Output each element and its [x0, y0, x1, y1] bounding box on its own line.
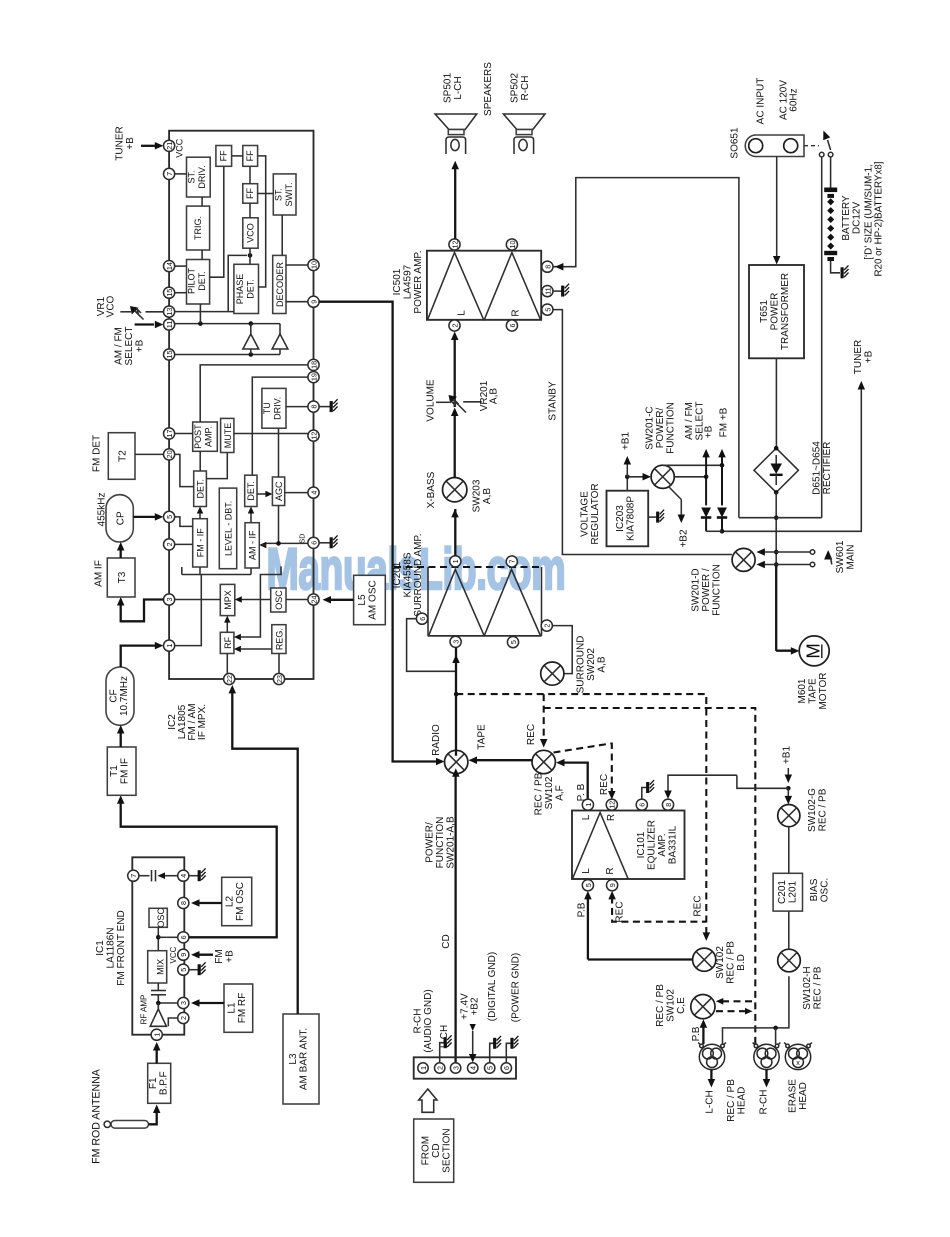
- label AM / FM SELECT +B: [684, 402, 715, 441]
- block FM-IF: [193, 519, 208, 567]
- wire CD line heavy: [452, 768, 460, 1063]
- wire agc-amif: [278, 506, 280, 544]
- svg-text:TAPE: TAPE: [477, 724, 488, 750]
- svg-text:R: R: [605, 867, 616, 874]
- block ST.SWIT.: [273, 174, 296, 215]
- svg-text:(POWER GND): (POWER GND): [510, 953, 521, 1022]
- wire pin5 PB-sw102bd heavy: [584, 891, 692, 960]
- svg-text:STANBY: STANBY: [548, 381, 559, 421]
- svg-text:A,B: A,B: [482, 488, 493, 504]
- svg-text:AGC: AGC: [274, 481, 284, 501]
- label M601 TAPE MOTOR: [797, 672, 829, 709]
- svg-text:VCC: VCC: [169, 946, 178, 963]
- speaker SP502 R-CH: [503, 73, 545, 154]
- wire pin12-speaker heavy: [451, 161, 459, 239]
- pin 17 IC2: [164, 428, 175, 439]
- wire osc2-pin24: [286, 599, 308, 601]
- wire F1-pin1 arrow: [153, 1042, 161, 1063]
- wire IC1pin6-T1: [117, 795, 277, 937]
- svg-text:BIAS: BIAS: [809, 878, 820, 901]
- svg-text:HEAD: HEAD: [737, 1087, 748, 1115]
- label L-CH head: [705, 1090, 716, 1113]
- wire mute-pin12: [234, 433, 308, 435]
- svg-text:POST: POST: [193, 424, 203, 449]
- svg-text:SW203: SW203: [472, 479, 483, 512]
- node VR1 VCO: [96, 295, 163, 319]
- pin 8 IC501: [542, 261, 553, 272]
- svg-text:7: 7: [165, 172, 174, 176]
- svg-text:PILOT: PILOT: [187, 267, 197, 294]
- filter CF 10.7MHz: [106, 667, 134, 725]
- svg-text:REC / PB: REC / PB: [726, 941, 737, 984]
- block MUTE: [221, 418, 234, 452]
- wire dashed af-pin12 rec: [554, 744, 616, 800]
- svg-text:ST.: ST.: [274, 188, 284, 201]
- pin 14 IC2: [164, 261, 175, 272]
- pin 5 IC1: [178, 964, 189, 975]
- IC IC501 LA4597 POWER AMP outline: [427, 251, 541, 320]
- block FROM CD SECTION: [414, 1119, 454, 1182]
- svg-text:AMP.: AMP.: [204, 426, 214, 447]
- svg-text:13: 13: [165, 308, 174, 316]
- svg-text:IC501: IC501: [392, 268, 403, 295]
- label REC / PB SW102 A,F: [534, 772, 566, 815]
- svg-text:REGULATOR: REGULATOR: [590, 483, 601, 544]
- svg-text:OSC: OSC: [156, 908, 166, 928]
- wire reg-pin23: [278, 654, 280, 674]
- svg-text:5: 5: [584, 883, 593, 887]
- wire stswit-decoder: [281, 215, 283, 255]
- svg-text:IC1: IC1: [95, 940, 106, 956]
- svg-text:FUNCTION: FUNCTION: [712, 564, 723, 616]
- antenna FM ROD ANTENNA: [91, 1068, 161, 1164]
- pin 2 IC1: [178, 1012, 189, 1023]
- svg-text:AMP.: AMP.: [657, 833, 668, 856]
- block TRIG.: [187, 206, 210, 250]
- svg-text:REC / PB: REC / PB: [655, 984, 666, 1027]
- svg-text:CD: CD: [431, 1143, 442, 1157]
- svg-text:REC / PB: REC / PB: [726, 1079, 737, 1122]
- wire decoder-pin10: [286, 264, 308, 266]
- svg-text:L1: L1: [227, 1002, 238, 1014]
- svg-text:L3: L3: [288, 1053, 299, 1065]
- wire pin6 stub: [158, 936, 177, 938]
- wire fmdet-arrow: [197, 507, 203, 519]
- wire osc1-mix pin6dot: [156, 927, 161, 950]
- svg-text:RF: RF: [223, 636, 233, 648]
- block FF1: [216, 146, 232, 167]
- svg-text:IC203: IC203: [615, 505, 626, 532]
- wire pin9-radio heavy: [319, 302, 444, 766]
- pin 15 IC2: [164, 287, 175, 298]
- wire pin22-L3: [229, 685, 298, 1014]
- IC IC1 LA1186N outline: [132, 857, 184, 1034]
- ground CD pin5: [490, 1036, 501, 1063]
- regulator IC203 KIA7808P: [607, 491, 649, 547]
- pin 2 IC501: [449, 320, 460, 331]
- svg-text:R: R: [511, 309, 522, 316]
- connector SO651 AC plug: [745, 135, 804, 157]
- label IC2 LA1805 FM / AM IF MPX: [167, 703, 208, 740]
- wire dashed swce branch: [544, 708, 756, 1044]
- wire osc2-mpx arrow: [235, 596, 271, 602]
- svg-text:R-CH: R-CH: [520, 76, 531, 101]
- wire bias rail heads: [723, 976, 789, 1044]
- wire pin15b-triangles: [175, 349, 280, 357]
- svg-text:12: 12: [309, 432, 318, 440]
- svg-text:5: 5: [165, 515, 174, 519]
- svg-text:TU: TU: [262, 402, 272, 414]
- svg-text:IF MPX.: IF MPX.: [197, 704, 208, 740]
- svg-text:L: L: [457, 310, 468, 316]
- wire dashed radio-sw102bd: [454, 692, 710, 941]
- node FM +B IC1: [191, 949, 236, 963]
- svg-text:10.7MHz: 10.7MHz: [119, 676, 130, 716]
- svg-text:FF: FF: [245, 188, 255, 199]
- label L R top ic101: [581, 814, 617, 821]
- svg-text:FM FRONT END: FM FRONT END: [116, 910, 127, 985]
- label SPEAKERS: [483, 62, 494, 116]
- amp power R triangle: [484, 253, 540, 320]
- wire L1-pin3 arrow: [191, 999, 224, 1007]
- switch SW203 X-BASS: [443, 478, 467, 502]
- svg-text:(AUDIO GND): (AUDIO GND): [423, 989, 434, 1052]
- svg-text:BATTERY: BATTERY: [841, 195, 852, 241]
- svg-text:T3: T3: [117, 571, 128, 583]
- wire sw201c-fmb: [663, 463, 725, 468]
- wire pin3 input heavy: [452, 648, 460, 756]
- svg-text:2: 2: [179, 1016, 188, 1020]
- svg-text:5: 5: [509, 640, 518, 644]
- svg-text:60Hz: 60Hz: [789, 88, 800, 111]
- svg-text:REC: REC: [526, 724, 537, 745]
- wire pin6-amif: [259, 541, 308, 548]
- wire tunerB line: [722, 381, 865, 531]
- wire so651-t651 arrow: [773, 157, 781, 265]
- pin 2 IC2: [164, 539, 175, 550]
- pin 9 IC101: [607, 880, 618, 891]
- svg-text:REG.: REG.: [275, 628, 285, 650]
- wire pilot-pin11bus: [199, 304, 201, 324]
- wire pin2 internal: [168, 1018, 177, 1026]
- svg-text:FM +B: FM +B: [719, 407, 730, 437]
- wire Bplus rail: [739, 517, 822, 519]
- svg-text:AM / FM: AM / FM: [684, 402, 695, 440]
- pin 3 IC1: [178, 997, 189, 1008]
- capacitor mix-rfamp: [151, 983, 166, 1009]
- connector CN CD: [414, 1057, 516, 1078]
- svg-text:11: 11: [165, 321, 174, 328]
- svg-text:24: 24: [309, 596, 318, 604]
- svg-text:SP502: SP502: [510, 73, 521, 103]
- svg-text:FROM: FROM: [421, 1136, 432, 1165]
- wire +B1-pin8: [664, 775, 737, 799]
- svg-text:HEAD: HEAD: [798, 1082, 809, 1110]
- label SW102-G REC / PB: [807, 788, 829, 832]
- wire ic501pin8 supply: [553, 178, 739, 518]
- svg-text:8: 8: [309, 405, 318, 409]
- IC IC101 EQULIZER outline: [572, 811, 685, 880]
- svg-text:P.B: P.B: [691, 1026, 702, 1041]
- svg-text:TRIG.: TRIG.: [193, 216, 203, 240]
- svg-text:+B1: +B1: [621, 432, 632, 451]
- svg-text:1: 1: [419, 1066, 428, 1070]
- ground IC101 pin6: [642, 780, 654, 799]
- svg-text:R-CH: R-CH: [413, 1009, 424, 1034]
- wire pin17-postamp: [175, 433, 193, 435]
- svg-text:POWER /: POWER /: [701, 568, 712, 612]
- pin 24 IC2: [308, 594, 319, 605]
- svg-text:A,B: A,B: [597, 656, 608, 672]
- wire sw102h-c201: [788, 911, 790, 949]
- svg-text:X-BASS: X-BASS: [426, 471, 437, 508]
- motor M601 TAPE MOTOR: [776, 565, 829, 666]
- wire dashed branch-sw102af: [540, 694, 548, 747]
- svg-text:REC / PB: REC / PB: [818, 788, 829, 831]
- svg-text:AM OSC: AM OSC: [368, 580, 379, 619]
- svg-text:6: 6: [502, 1066, 511, 1070]
- diode D fmb: [717, 449, 727, 534]
- svg-text:L: L: [581, 814, 592, 820]
- wire T1-CF arrow: [117, 725, 125, 747]
- pin 11 IC2: [164, 319, 175, 330]
- switch SW601 MAIN: [756, 548, 832, 568]
- svg-text:AC INPUT: AC INPUT: [756, 78, 767, 125]
- wire stdriv-trig: [201, 197, 203, 206]
- svg-text:LEVEL - DBT.: LEVEL - DBT.: [224, 501, 234, 556]
- wire tudriv-pin8: [286, 406, 308, 408]
- svg-text:POWER AMP.: POWER AMP.: [413, 250, 424, 313]
- head ERASE: [784, 1043, 812, 1070]
- wire pin11 bus: [175, 321, 280, 334]
- block ST.DRIV.: [187, 157, 211, 197]
- svg-text:CD: CD: [441, 934, 452, 948]
- svg-text:7: 7: [508, 560, 517, 564]
- label AC INPUT: [756, 78, 767, 125]
- pin 20 IC2: [164, 449, 175, 460]
- rectifier D651-D654: [754, 446, 798, 495]
- svg-text:FM: FM: [214, 949, 225, 963]
- wire mute-fmdet: [206, 453, 227, 479]
- wire agcline-rf: [234, 566, 281, 640]
- svg-text:22: 22: [225, 675, 234, 683]
- label D SIZE battery note: [864, 161, 885, 276]
- svg-text:R: R: [606, 814, 617, 821]
- block OSC osc2: [271, 588, 286, 612]
- wire pin15-pilot: [175, 292, 187, 294]
- block MIX: [148, 951, 167, 983]
- svg-text:15: 15: [165, 351, 174, 359]
- svg-text:AM IF: AM IF: [94, 560, 105, 587]
- block FF3: [243, 184, 258, 204]
- block MPX: [220, 584, 235, 615]
- block PHASE DET.: [234, 264, 259, 313]
- label POWER/FUNCTION SW201-A.B: [425, 816, 457, 869]
- pin 3 IC201: [450, 636, 461, 647]
- head R-CH REC/PB: [753, 1043, 781, 1070]
- svg-text:SELECT: SELECT: [124, 327, 135, 366]
- wire diode rail: [706, 530, 722, 532]
- svg-text:FUNCTION: FUNCTION: [666, 402, 677, 454]
- svg-text:SURROUND AMP.: SURROUND AMP.: [413, 533, 424, 616]
- pin 7 IC2: [164, 168, 175, 179]
- svg-text:2: 2: [436, 1066, 445, 1070]
- svg-text:REC / PB: REC / PB: [813, 966, 824, 1009]
- svg-text:L-CH: L-CH: [453, 76, 464, 99]
- svg-text:SW102-G: SW102-G: [807, 788, 818, 832]
- svg-text:+B2: +B2: [679, 529, 690, 548]
- pin 8 IC1: [178, 897, 189, 908]
- pin 1 CD: [418, 1063, 428, 1073]
- pin 1 IC101: [582, 799, 593, 810]
- svg-text:DRIV.: DRIV.: [273, 397, 283, 420]
- block OSC osc1: [149, 908, 167, 928]
- svg-text:TAPE: TAPE: [808, 678, 819, 704]
- pin 6 IC501: [506, 320, 517, 331]
- label ERASE HEAD: [788, 1079, 810, 1113]
- wire decoder-pin9: [286, 301, 308, 303]
- label REC sw102bd: [693, 895, 704, 916]
- svg-text:1: 1: [584, 803, 593, 807]
- svg-text:SW601: SW601: [835, 540, 846, 573]
- capacitor pin7-pin4 arrow: [139, 870, 178, 881]
- label REC ic101pin9: [615, 901, 626, 922]
- block AM-IF: [245, 523, 259, 568]
- block AM DET det: [245, 475, 257, 506]
- pin 2 CD: [435, 1063, 445, 1073]
- svg-text:3: 3: [165, 598, 174, 602]
- wire rf-mpx arrow: [224, 616, 230, 633]
- label VCC IC1: [169, 946, 178, 963]
- pin 3 CD: [450, 1063, 460, 1073]
- wire pin9 REC dashed: [608, 891, 706, 922]
- wire rf-pin22: [226, 654, 228, 674]
- svg-text:SW102-H: SW102-H: [802, 966, 813, 1009]
- pin 12 IC2: [308, 430, 319, 441]
- svg-text:SURROUND: SURROUND: [576, 636, 587, 694]
- svg-text:C,E: C,E: [676, 997, 687, 1014]
- svg-text:10: 10: [309, 261, 318, 269]
- block FM DET det: [194, 471, 207, 507]
- svg-text:9: 9: [179, 953, 188, 957]
- svg-text:AM BAR ANT.: AM BAR ANT.: [299, 1028, 310, 1090]
- svg-text:1: 1: [451, 559, 460, 563]
- svg-text:SPEAKERS: SPEAKERS: [483, 62, 494, 116]
- wire pin3-T3: [117, 597, 163, 621]
- switch SW201-A,B RADIO: [445, 750, 468, 773]
- svg-text:F1: F1: [148, 1077, 159, 1089]
- svg-text:DET.: DET.: [246, 279, 256, 299]
- svg-text:18: 18: [309, 361, 318, 369]
- label P. B ic101pin1: [576, 783, 587, 801]
- svg-text:DRIV.: DRIV.: [197, 165, 207, 188]
- pin 9 IC2: [308, 296, 319, 307]
- wire rec-radio arrow: [469, 756, 533, 764]
- svg-text:FM IF: FM IF: [120, 758, 131, 784]
- svg-text:21: 21: [165, 142, 174, 150]
- battery BATTERY DC12V: [824, 188, 837, 262]
- svg-text:B.D: B.D: [736, 954, 747, 971]
- label BATTERY DC12V: [841, 195, 863, 241]
- pin 10 IC2: [308, 259, 319, 270]
- label SW201-C POWER/ FUNCTION: [645, 402, 677, 454]
- switch SW201-C POWER/FUNCTION: [651, 465, 674, 488]
- wire ff3-vco: [249, 203, 251, 218]
- wire pin5-fmif: [175, 517, 193, 527]
- label VOLTAGE REGULATOR: [580, 483, 602, 544]
- ground IC501 pin11: [553, 284, 569, 297]
- svg-text:DET.: DET.: [196, 479, 206, 499]
- pin 6 IC201: [416, 613, 427, 624]
- svg-text:RECTIFIER: RECTIFIER: [822, 442, 833, 495]
- label (DIGITAL GND): [487, 952, 498, 1021]
- wire L2-pin8 arrow: [191, 899, 222, 907]
- pin 6 IC101: [636, 799, 647, 810]
- svg-text:FM OSC: FM OSC: [235, 882, 246, 921]
- pin 7 IC201: [506, 556, 517, 567]
- svg-text:SW202: SW202: [586, 648, 597, 681]
- wire pin19-amdet: [252, 377, 308, 475]
- svg-text:L2: L2: [225, 896, 236, 908]
- label FM +B: [719, 407, 730, 437]
- label IC101 EQULIZER AMP. BA331IL: [636, 820, 679, 870]
- ground CD pin6: [506, 1036, 518, 1063]
- pin 12 IC101: [606, 799, 617, 810]
- svg-text:3: 3: [452, 640, 461, 644]
- wire pin1-ifbus: [175, 567, 251, 646]
- svg-text:8: 8: [664, 803, 673, 807]
- svg-text:MPX: MPX: [223, 590, 233, 610]
- wire amdet-agc: [257, 491, 272, 497]
- wire pin3-mpx: [175, 599, 221, 601]
- ground IC2 pin6: [319, 535, 338, 548]
- svg-text:SW102: SW102: [666, 989, 677, 1022]
- label TUNER +B right: [853, 340, 875, 374]
- label STANBY: [548, 381, 559, 421]
- svg-text:RADIO: RADIO: [431, 724, 442, 756]
- amp surround R triangle: [484, 569, 540, 635]
- pin 19 IC2: [308, 372, 319, 383]
- svg-text:VCO: VCO: [246, 223, 256, 243]
- svg-text:KIA4558S: KIA4558S: [403, 552, 414, 597]
- svg-text:MAIN: MAIN: [846, 545, 857, 570]
- coil L5 AM OSC: [354, 575, 386, 624]
- transformer T651 POWER TRANSFORMER: [749, 265, 804, 358]
- svg-text:10: 10: [508, 241, 517, 249]
- ground IC2 pin8: [319, 399, 338, 412]
- svg-text:DET.: DET.: [246, 481, 256, 501]
- label D651~D654 RECTIFIER: [812, 441, 834, 495]
- svg-text:SP501: SP501: [443, 73, 454, 103]
- svg-text:+B: +B: [125, 137, 136, 150]
- label RADIO: [431, 724, 442, 756]
- wire rect-motor line: [774, 492, 779, 650]
- label L R bottom ic101: [581, 867, 616, 874]
- potentiometer VR201 VOLUME: [426, 379, 500, 422]
- svg-text:9: 9: [608, 883, 617, 887]
- svg-text:1: 1: [165, 644, 174, 648]
- svg-text:6: 6: [179, 935, 188, 939]
- svg-text:SW102: SW102: [544, 776, 555, 809]
- switch SW battery lever: [819, 129, 832, 157]
- svg-text:23: 23: [275, 675, 284, 683]
- svg-text:R-CH: R-CH: [759, 1090, 770, 1115]
- label TAPE: [477, 724, 488, 750]
- wire pin3 internal dot: [156, 1001, 178, 1009]
- wire rch-head down arrow: [763, 1070, 771, 1088]
- svg-text:CP: CP: [116, 511, 127, 525]
- pin 5 IC201: [507, 637, 518, 648]
